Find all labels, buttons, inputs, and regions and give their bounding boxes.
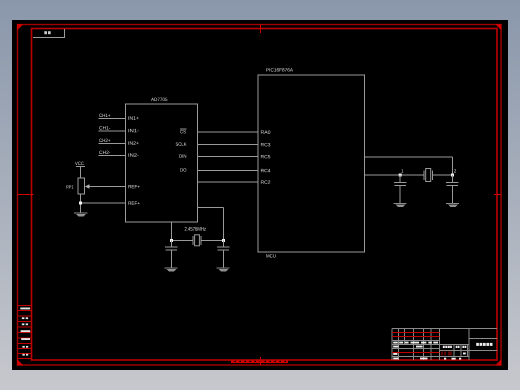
left margin table [18,306,32,359]
wire CH2+ [99,143,126,145]
wire REF- [81,202,126,204]
crystal Y2 body [426,169,431,182]
wire MCLKIN right [198,207,224,209]
node CH2+ [99,139,110,142]
corner triangle bottom-left [17,359,24,366]
pin IN1+ [128,116,138,119]
wire crystal right [201,240,224,242]
potentiometer RP1 [78,178,85,194]
capacitor C2 [217,241,230,269]
crystal Y2 plates [423,171,425,181]
pin RC2 [261,180,270,183]
wire CS to RA0 [198,131,259,133]
second row labels [393,346,398,348]
bottom row labels [393,358,398,360]
wire to RC2 [198,181,259,183]
pin IN2- [129,153,139,156]
pin SCLK [176,142,187,145]
bottom middle row [444,358,446,360]
junction left [170,239,173,242]
crystal Y1 2.4576MHz circuit [172,236,224,245]
ground [74,212,88,214]
bottom comb baseline [231,362,288,364]
bottom comb dashes [231,361,288,363]
op-amp-like chip U1 AD7705 [126,104,198,222]
center tick bottom [260,357,262,365]
label 2.4576MHz [185,227,206,231]
wire OSC2 [365,174,425,176]
junction right [222,239,225,242]
crystal Y1 body [195,235,200,246]
wire DIN to RC5 [198,156,259,158]
pin RC3 [261,143,270,146]
ground [446,203,459,205]
center tick left [17,194,34,196]
title text glyphs [476,343,479,346]
pin CS [180,130,186,133]
pin IN1- [129,129,139,132]
node CH1+ [99,114,110,117]
ground [217,267,230,269]
label AD7705 [151,98,167,101]
pin REF+ [128,185,139,188]
inner red border [32,29,498,361]
ground [394,203,407,205]
wire DO to RC4 [198,170,259,172]
wire CH2- [99,155,126,157]
third row label [393,353,397,355]
VCC rail [75,162,84,165]
crystal Y1 plates [192,236,194,245]
junction 1 [399,174,402,177]
sheet zone box YY [33,29,65,38]
pin DO [180,168,186,171]
corner triangle bottom-right [495,359,502,366]
pin DIN [179,154,186,157]
title block [392,329,497,361]
pin RC4 [261,169,270,172]
junction [79,202,82,205]
capacitor C1 [165,241,178,269]
junction 2 [451,174,454,177]
wire MCLKOUT down [171,222,173,241]
wire SCLK to RC3 [198,144,259,146]
label MCU [266,254,275,257]
corner triangle top-right [495,24,502,31]
wire OSC1 [365,157,453,180]
node CH1- [99,126,110,129]
capacitor C3 [394,175,407,204]
wire CH1- [99,130,126,132]
header tiny text row [393,342,398,344]
microcontroller U2 PIC16F876A [258,75,365,252]
center tick right [494,194,501,196]
corner triangle top-left [17,24,24,31]
ground [165,267,178,269]
wire CH1+ [99,118,126,120]
pin RA0 [261,130,270,133]
label PIC16F876A [266,68,293,71]
wire RP1 bottom [80,194,82,213]
pin RC5 [261,155,270,158]
wire crystal left [172,240,194,242]
wiper arrow [89,186,126,188]
center tick top [260,25,262,34]
node CH2- [99,151,110,154]
capacitor C4 [446,175,459,204]
pin IN2+ [128,141,138,144]
pin REF- [128,201,139,204]
